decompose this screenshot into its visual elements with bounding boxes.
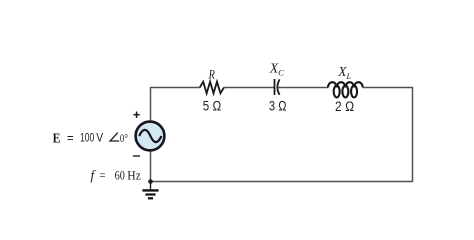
wire: right vertical <box>412 87 414 182</box>
svg-text:5 Ω: 5 Ω <box>203 98 222 114</box>
svg-text:f: f <box>91 168 97 183</box>
ac source E: sine wave <box>139 130 161 142</box>
capacitor XC: curved plate <box>277 79 279 94</box>
svg-text:100: 100 <box>80 133 94 145</box>
svg-text:V: V <box>96 133 103 145</box>
angle symbol <box>110 133 119 141</box>
svg-text:2 Ω: 2 Ω <box>335 98 354 114</box>
svg-text:XL: XL <box>337 64 351 81</box>
wire: between capacitor and inductor <box>278 87 328 89</box>
ac source E: circle <box>136 122 165 151</box>
svg-text:60: 60 <box>115 168 125 183</box>
svg-text:0°: 0° <box>120 133 128 145</box>
plus sign <box>133 112 139 119</box>
svg-text:Hz: Hz <box>127 168 141 183</box>
inductor XL: loop 1 <box>334 86 340 98</box>
svg-text:E: E <box>53 130 61 145</box>
svg-text:3 Ω: 3 Ω <box>269 97 287 113</box>
minus sign <box>133 155 140 157</box>
ground: bar 2 <box>145 193 155 195</box>
inductor XL: loop 2 <box>342 86 348 98</box>
capacitor XC: flat plate <box>274 79 276 95</box>
wire: left vertical upper (corner to source top) <box>150 87 152 122</box>
svg-text:R: R <box>208 66 215 81</box>
wire: between resistor and capacitor <box>224 87 275 89</box>
svg-text:=: = <box>67 131 74 145</box>
junction node <box>148 179 153 184</box>
wire: inductor to top-right corner <box>363 87 413 89</box>
svg-text:=: = <box>99 168 105 183</box>
wire: top-left segment from corner to resistor <box>150 87 200 89</box>
inductor XL: loop 3 <box>351 86 357 98</box>
ground: stub <box>150 182 152 190</box>
resistor R <box>200 82 224 94</box>
wire: bottom horizontal <box>150 181 413 183</box>
wire: left vertical lower (source bottom to bottom wire) <box>150 151 152 182</box>
svg-text:XC: XC <box>269 61 284 78</box>
inductor XL: humps <box>328 82 363 87</box>
ground: bar 1 <box>142 189 158 191</box>
ground: bar 3 <box>148 197 153 199</box>
